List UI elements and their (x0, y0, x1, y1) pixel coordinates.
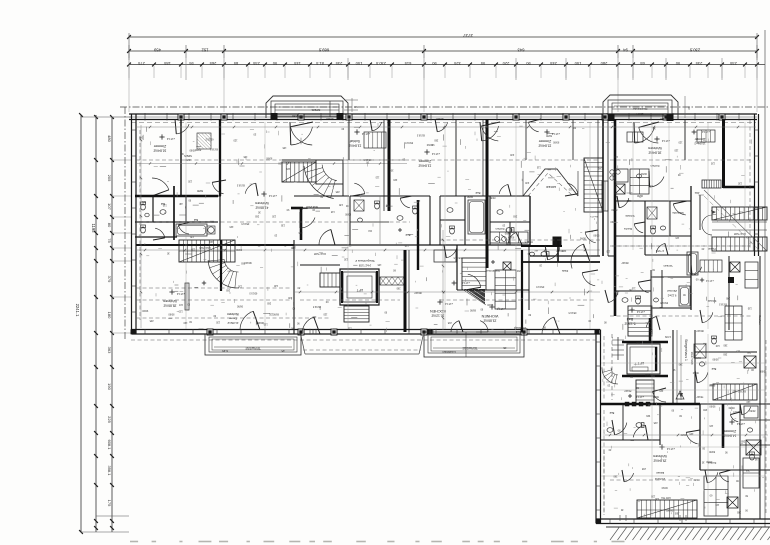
right apartment interior (608, 119, 767, 340)
svg-text:115: 115 (738, 211, 742, 214)
svg-text:80/80: 80/80 (708, 450, 715, 453)
svg-text:+17.14: +17.14 (496, 307, 505, 311)
svg-text:14.84m2: 14.84m2 (723, 433, 736, 437)
svg-text:Kleinkinder: Kleinkinder (633, 107, 648, 111)
svg-text:615: 615 (404, 61, 411, 66)
svg-text:81.5: 81.5 (315, 61, 324, 66)
svg-text:115: 115 (330, 210, 334, 213)
svg-text:235: 235 (695, 61, 702, 66)
svg-text:135: 135 (338, 203, 343, 206)
svg-text:2.80: 2.80 (292, 114, 298, 118)
svg-text:120: 120 (190, 247, 195, 250)
svg-text:+17.14: +17.14 (444, 302, 453, 306)
svg-text:29.84m2: 29.84m2 (653, 458, 666, 462)
svg-text:23.86m2: 23.86m2 (483, 318, 496, 322)
svg-text:265: 265 (434, 139, 439, 142)
svg-text:Schlaf: Schlaf (349, 139, 360, 143)
svg-text:15.84m2: 15.84m2 (538, 143, 551, 147)
svg-text:325: 325 (453, 61, 460, 66)
svg-text:265: 265 (703, 408, 708, 411)
central maisonette stair cluster (282, 160, 343, 208)
svg-text:Wohnen: Wohnen (227, 312, 239, 316)
svg-text:LIFT: LIFT (357, 288, 364, 292)
ground hatch (606, 527, 770, 540)
svg-text:WC: WC (142, 200, 146, 203)
balcony top-2 (603, 95, 691, 121)
svg-text:145: 145 (293, 61, 300, 66)
svg-text:245: 245 (510, 153, 515, 156)
svg-text:65/19.5: 65/19.5 (659, 301, 668, 304)
svg-text:120: 120 (746, 400, 751, 403)
svg-text:90/140: 90/140 (660, 117, 668, 120)
svg-text:Bad: Bad (609, 411, 614, 414)
svg-text:90: 90 (675, 61, 680, 66)
svg-text:245: 245 (525, 181, 530, 184)
svg-text:80/80: 80/80 (189, 148, 196, 151)
eave dash-dot line top (120, 106, 770, 108)
svg-text:Abst: Abst (694, 191, 699, 194)
svg-text:80/80: 80/80 (508, 235, 515, 238)
svg-text:6.45: 6.45 (222, 349, 228, 353)
svg-text:245: 245 (678, 363, 683, 366)
terrace strip between balconies (301, 336, 423, 354)
svg-text:Schrank: Schrank (707, 299, 717, 302)
wardrobe top middle (364, 132, 386, 148)
svg-text:Zimmer: Zimmer (667, 289, 677, 293)
svg-text:Stiegenhaus 2: Stiegenhaus 2 (355, 259, 375, 263)
exterior wall top (129, 113, 757, 115)
svg-text:80/197: 80/197 (696, 329, 704, 332)
svg-text:65/19.5: 65/19.5 (249, 292, 258, 295)
svg-text:KOCHEN: KOCHEN (430, 309, 446, 313)
svg-text:235: 235 (252, 61, 259, 66)
svg-text:16x17.5: 16x17.5 (589, 215, 598, 217)
svg-text:265: 265 (266, 302, 271, 305)
svg-text:669.5: 669.5 (318, 48, 329, 53)
svg-text:115: 115 (715, 503, 719, 506)
svg-text:115: 115 (614, 155, 618, 158)
svg-text:65/19.5: 65/19.5 (568, 311, 577, 314)
wing lower rooms (600, 404, 770, 521)
svg-text:265: 265 (225, 288, 230, 291)
svg-text:120: 120 (233, 139, 238, 142)
svg-text:80/80: 80/80 (749, 409, 756, 412)
svg-text:Garderobe: Garderobe (672, 211, 684, 214)
svg-text:Zimmer: Zimmer (723, 429, 736, 433)
svg-text:135: 135 (626, 199, 631, 202)
svg-text:90/60: 90/60 (636, 194, 642, 196)
svg-text:115: 115 (375, 175, 379, 178)
svg-text:90: 90 (526, 61, 531, 66)
svg-text:80/80: 80/80 (168, 313, 175, 316)
balcony bottom-2 terasse (424, 332, 524, 357)
svg-text:SPEIS: SPEIS (184, 154, 192, 158)
svg-text:265: 265 (613, 475, 618, 478)
svg-text:120: 120 (737, 181, 742, 184)
svg-text:80/197: 80/197 (621, 261, 629, 263)
svg-text:Fussboden: Fussboden (442, 350, 456, 354)
svg-text:75/197: 75/197 (696, 395, 704, 397)
svg-text:90/140: 90/140 (436, 117, 444, 120)
svg-text:90/90: 90/90 (666, 509, 673, 512)
svg-text:Bad: Bad (193, 218, 198, 221)
svg-text:13.84m2: 13.84m2 (348, 143, 361, 147)
svg-text:90/90: 90/90 (661, 486, 668, 489)
svg-text:Kochen: Kochen (650, 164, 659, 168)
svg-text:+17.14: +17.14 (706, 279, 714, 282)
svg-text:245: 245 (138, 136, 143, 139)
left dimension chain (75, 113, 131, 534)
svg-text:Wohnen: Wohnen (163, 299, 177, 303)
svg-text:Zimmer: Zimmer (418, 159, 431, 163)
balcony bottom-1 (205, 334, 301, 355)
svg-text:85: 85 (233, 61, 238, 66)
svg-text:80/197: 80/197 (414, 291, 422, 294)
svg-text:90/90: 90/90 (142, 309, 149, 312)
svg-text:75: 75 (107, 238, 112, 243)
svg-text:120: 120 (710, 161, 715, 164)
svg-text:120: 120 (178, 310, 183, 313)
svg-text:80/80: 80/80 (611, 208, 618, 211)
svg-text:115: 115 (606, 249, 610, 252)
svg-text:13.84m2: 13.84m2 (418, 163, 431, 167)
svg-text:26.84m2: 26.84m2 (648, 150, 661, 154)
svg-text:180: 180 (107, 312, 112, 319)
svg-text:90/90: 90/90 (760, 370, 767, 373)
svg-text:65/19.5: 65/19.5 (524, 240, 533, 243)
balcony top-1 (266, 96, 358, 120)
svg-text:65/19.5: 65/19.5 (536, 285, 545, 288)
svg-text:152: 152 (201, 48, 209, 53)
doors along top wall (175, 119, 659, 260)
svg-text:275: 275 (137, 61, 144, 66)
svg-text:16x17.5/29: 16x17.5/29 (199, 246, 211, 248)
svg-text:120: 120 (715, 344, 720, 347)
svg-text:120: 120 (654, 497, 659, 500)
svg-text:135: 135 (263, 322, 268, 325)
svg-text:90/90: 90/90 (236, 305, 243, 308)
svg-text:Kochen: Kochen (758, 315, 762, 325)
svg-text:150: 150 (574, 61, 581, 66)
svg-text:643: 643 (517, 48, 525, 53)
svg-text:185: 185 (163, 61, 170, 66)
svg-text:265: 265 (736, 511, 741, 514)
svg-text:29.84m2: 29.84m2 (654, 477, 665, 481)
svg-text:80/80: 80/80 (272, 313, 279, 316)
svg-text:280: 280 (600, 61, 607, 66)
sheet edge line right (764, 30, 766, 527)
svg-text:150: 150 (355, 61, 362, 66)
svg-text:220: 220 (502, 61, 509, 66)
svg-text:16.84m2: 16.84m2 (153, 148, 166, 152)
svg-text:Vorzimmer: Vorzimmer (486, 269, 499, 273)
svg-text:90/90: 90/90 (709, 405, 716, 408)
svg-text:65/19.5: 65/19.5 (236, 184, 245, 187)
bottom cropped text row (130, 541, 625, 543)
svg-text:80/80: 80/80 (693, 478, 700, 481)
svg-text:14x17.5/28: 14x17.5/28 (358, 264, 371, 267)
svg-text:AR: AR (179, 202, 183, 205)
svg-text:65/19.5: 65/19.5 (241, 222, 250, 225)
svg-text:WOHNEN: WOHNEN (481, 314, 498, 318)
svg-text:245: 245 (416, 199, 421, 202)
svg-text:115: 115 (347, 327, 351, 330)
svg-text:115: 115 (286, 167, 290, 170)
svg-text:94: 94 (623, 48, 628, 53)
svg-text:TERASSE: TERASSE (245, 346, 261, 350)
svg-text:80/80: 80/80 (553, 141, 560, 144)
svg-text:Essen: Essen (229, 317, 238, 321)
svg-text:10.12m2: 10.12m2 (431, 313, 444, 317)
svg-text:2.80: 2.80 (185, 158, 190, 161)
svg-text:90/90: 90/90 (593, 234, 600, 237)
svg-text:135: 135 (280, 223, 285, 226)
exterior wall right (754, 114, 756, 256)
svg-text:SPEIS: SPEIS (312, 108, 321, 112)
svg-text:ERKER: ERKER (546, 185, 556, 189)
svg-text:205: 205 (107, 175, 112, 182)
svg-text:80/80: 80/80 (489, 196, 496, 199)
svg-text:120: 120 (269, 312, 274, 315)
svg-text:245: 245 (393, 178, 398, 181)
svg-text:Bad: Bad (475, 191, 480, 195)
svg-text:65/19.5: 65/19.5 (737, 390, 746, 393)
svg-text:265: 265 (209, 61, 216, 66)
exterior wall bottom-left section (132, 329, 601, 331)
svg-text:+17.14: +17.14 (666, 447, 675, 451)
svg-text:90: 90 (432, 61, 437, 66)
svg-text:90/90: 90/90 (426, 143, 433, 146)
svg-text:115: 115 (675, 236, 679, 239)
svg-text:245: 245 (229, 225, 234, 228)
svg-text:Zimmer: Zimmer (694, 137, 706, 141)
svg-text:65/19.5: 65/19.5 (416, 134, 425, 137)
svg-text:120: 120 (183, 321, 188, 324)
svg-text:135: 135 (377, 263, 382, 266)
svg-text:17 STG: 17 STG (656, 249, 664, 252)
svg-text:+17.14: +17.14 (636, 310, 645, 314)
svg-text:135: 135 (162, 203, 167, 206)
svg-text:90/90: 90/90 (640, 172, 647, 175)
window ticks top wall (144, 113, 146, 121)
svg-text:Stiegenhaus 1: Stiegenhaus 1 (684, 339, 688, 361)
svg-text:+17.14: +17.14 (701, 130, 710, 134)
svg-text:245: 245 (725, 296, 730, 299)
svg-text:80/80: 80/80 (706, 460, 713, 463)
svg-text:120: 120 (291, 246, 296, 249)
svg-text:18x17.5/28: 18x17.5/28 (733, 232, 746, 235)
wing stairwell block (600, 306, 700, 406)
exterior wall wing-bottom (596, 518, 770, 520)
svg-text:+17.14: +17.14 (166, 137, 175, 141)
svg-text:65: 65 (640, 61, 645, 66)
svg-text:245: 245 (597, 167, 602, 170)
svg-text:Fussboden: Fussboden (513, 326, 526, 329)
svg-text:235: 235 (729, 61, 736, 66)
left apartment interior (135, 119, 600, 334)
svg-text:Vorraum: Vorraum (663, 264, 672, 267)
svg-text:120: 120 (651, 495, 656, 498)
svg-text:Essen: Essen (656, 471, 664, 475)
facade columns bottom wall (207, 329, 213, 335)
svg-text:Zimmer: Zimmer (538, 139, 551, 143)
svg-text:Wohnen: Wohnen (653, 454, 667, 458)
svg-text:80/80: 80/80 (196, 189, 203, 192)
misc small dim texts (138, 126, 766, 514)
svg-text:90: 90 (272, 61, 277, 66)
svg-text:265: 265 (149, 319, 154, 322)
svg-text:135: 135 (674, 148, 679, 151)
svg-text:WC: WC (646, 414, 650, 417)
svg-text:135: 135 (323, 312, 328, 315)
svg-text:65/19.5: 65/19.5 (718, 303, 727, 306)
center apartment interior (418, 119, 608, 334)
svg-text:65/19.5: 65/19.5 (205, 138, 214, 141)
svg-text:45: 45 (503, 346, 507, 350)
svg-text:90/265: 90/265 (256, 321, 264, 324)
svg-text:235: 235 (335, 61, 342, 66)
exterior wall left (131, 114, 133, 334)
extra corridor texts (196, 117, 703, 392)
middle apartment interior (255, 119, 600, 335)
svg-text:265: 265 (254, 215, 259, 218)
svg-text:120: 120 (215, 321, 220, 324)
svg-text:459: 459 (153, 48, 161, 53)
svg-text:80/80: 80/80 (266, 157, 273, 160)
svg-text:Zimmer: Zimmer (153, 144, 166, 148)
svg-text:41.86m2: 41.86m2 (227, 321, 238, 325)
svg-text:265: 265 (723, 344, 728, 347)
svg-text:120: 120 (678, 141, 683, 144)
svg-text:80/80: 80/80 (652, 395, 659, 398)
terrace eave dashed line (131, 339, 598, 341)
svg-text:120: 120 (343, 258, 348, 261)
svg-text:80/80: 80/80 (692, 371, 699, 374)
svg-text:265: 265 (298, 231, 303, 234)
interior dim vline x443 (380, 196, 444, 330)
svg-text:Wohnen: Wohnen (648, 146, 662, 150)
svg-text:80/80: 80/80 (680, 433, 687, 436)
svg-text:265: 265 (746, 350, 751, 353)
svg-text:9.12m2: 9.12m2 (667, 294, 676, 298)
svg-text:120: 120 (271, 215, 276, 218)
svg-text:245: 245 (549, 61, 556, 66)
svg-text:17/29: 17/29 (664, 335, 670, 337)
svg-text:Wohnen: Wohnen (255, 201, 269, 205)
svg-text:115: 115 (312, 315, 316, 318)
svg-text:265: 265 (723, 352, 728, 355)
svg-text:65/19.5: 65/19.5 (209, 147, 218, 150)
svg-text:245: 245 (562, 249, 567, 252)
svg-text:16/5 T31: 16/5 T31 (661, 496, 671, 499)
svg-text:41.86m2: 41.86m2 (255, 205, 268, 209)
svg-text:Diele: Diele (561, 269, 568, 273)
svg-text:363: 363 (107, 347, 112, 354)
svg-text:230.5: 230.5 (689, 48, 700, 53)
svg-text:1195: 1195 (91, 223, 96, 233)
svg-text:135: 135 (243, 155, 248, 158)
svg-text:80/80: 80/80 (469, 309, 476, 312)
svg-text:265: 265 (745, 469, 750, 472)
svg-text:135: 135 (648, 184, 653, 187)
svg-text:+17.17: +17.17 (635, 395, 644, 399)
svg-text:265: 265 (396, 286, 401, 289)
svg-text:120: 120 (209, 240, 214, 243)
svg-text:135: 135 (732, 390, 737, 393)
svg-text:Bad: Bad (711, 367, 716, 370)
svg-text:Dusche: Dusche (623, 227, 632, 230)
svg-text:115: 115 (536, 166, 540, 169)
svg-text:120: 120 (709, 383, 714, 386)
svg-text:265: 265 (513, 214, 518, 217)
svg-text:190: 190 (107, 383, 112, 390)
svg-text:480: 480 (107, 135, 112, 142)
svg-text:115: 115 (568, 188, 572, 191)
svg-text:80/80: 80/80 (728, 406, 735, 409)
svg-text:+17.14: +17.14 (461, 281, 470, 285)
svg-text:90/90: 90/90 (712, 358, 719, 361)
svg-text:+17.14: +17.14 (431, 152, 440, 156)
svg-text:225: 225 (107, 416, 112, 423)
svg-text:135: 135 (747, 307, 752, 310)
svg-text:13.84: 13.84 (636, 112, 643, 116)
svg-text:230.5: 230.5 (375, 61, 386, 66)
svg-text:3737: 3737 (462, 33, 473, 38)
svg-text:Bad: Bad (405, 233, 410, 237)
svg-text:65/19.5: 65/19.5 (645, 374, 654, 377)
svg-text:80/80: 80/80 (344, 213, 351, 216)
svg-text:608.1: 608.1 (107, 439, 112, 450)
svg-text:265: 265 (241, 262, 246, 265)
svg-text:75/197: 75/197 (624, 389, 632, 392)
svg-text:379: 379 (107, 276, 112, 283)
svg-text:265: 265 (674, 511, 679, 514)
svg-text:+17.14: +17.14 (361, 132, 370, 136)
svg-text:65/19.5: 65/19.5 (453, 256, 462, 259)
exterior wall wing-left (595, 330, 597, 524)
svg-text:90/140: 90/140 (326, 117, 334, 120)
structural grid faint verticals (186, 122, 766, 516)
svg-text:120: 120 (237, 285, 242, 288)
svg-text:245: 245 (641, 467, 646, 470)
svg-text:245: 245 (653, 421, 658, 424)
svg-text:+17.14: +17.14 (268, 194, 277, 198)
svg-text:DU: DU (368, 229, 372, 232)
long dashed guide lines (136, 120, 766, 515)
svg-text:28.86m2: 28.86m2 (163, 303, 176, 307)
svg-text:80/80: 80/80 (545, 134, 552, 137)
svg-text:90/90: 90/90 (466, 195, 473, 198)
svg-text:120: 120 (187, 180, 192, 183)
svg-text:175: 175 (107, 500, 112, 507)
svg-text:Podest: Podest (708, 247, 716, 250)
svg-text:TERASSE: TERASSE (462, 346, 478, 350)
svg-text:80: 80 (107, 223, 112, 228)
svg-text:90/90: 90/90 (487, 303, 494, 306)
eave dash-dot line left (124, 107, 126, 340)
facade columns top wall (178, 114, 184, 120)
svg-text:265: 265 (740, 439, 745, 442)
svg-text:265: 265 (335, 190, 340, 193)
extra door arcs main band (212, 119, 750, 482)
svg-text:115: 115 (635, 342, 639, 345)
svg-text:115: 115 (178, 303, 182, 306)
wing upper-right rooms (676, 330, 770, 404)
svg-text:65/19.5: 65/19.5 (312, 305, 321, 308)
interior dim lines (136, 125, 768, 436)
svg-text:107: 107 (107, 203, 112, 210)
svg-text:2241.1: 2241.1 (75, 304, 80, 317)
